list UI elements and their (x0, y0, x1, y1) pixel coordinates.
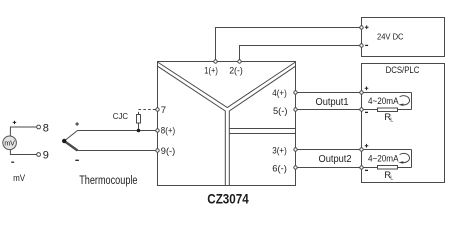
svg-text:Output1: Output1 (316, 97, 349, 108)
svg-text:5(-): 5(-) (273, 106, 288, 116)
svg-text:8: 8 (43, 123, 49, 135)
svg-text:CJC: CJC (113, 111, 128, 121)
svg-text:Output2: Output2 (319, 154, 352, 165)
svg-text:2(-): 2(-) (229, 65, 243, 75)
svg-text:4~20mA: 4~20mA (368, 154, 399, 165)
svg-text:mV: mV (4, 140, 15, 147)
svg-text:24V DC: 24V DC (377, 32, 404, 42)
svg-text:L: L (390, 176, 393, 182)
svg-text:9: 9 (43, 149, 49, 161)
svg-text:7: 7 (161, 105, 166, 116)
svg-text:DCS/PLC: DCS/PLC (386, 65, 420, 75)
svg-text:9(-): 9(-) (161, 146, 175, 156)
svg-text:3(+): 3(+) (272, 145, 287, 155)
svg-text:L: L (390, 118, 393, 124)
svg-text:CZ3074: CZ3074 (207, 191, 249, 206)
svg-text:8(+): 8(+) (161, 126, 175, 136)
svg-text:Thermocouple: Thermocouple (79, 175, 137, 187)
svg-text:mV: mV (13, 173, 25, 183)
svg-text:6(-): 6(-) (272, 163, 287, 173)
svg-text:4~20mA: 4~20mA (368, 96, 399, 107)
svg-text:4(+): 4(+) (272, 88, 287, 98)
svg-text:1(+): 1(+) (204, 65, 218, 75)
